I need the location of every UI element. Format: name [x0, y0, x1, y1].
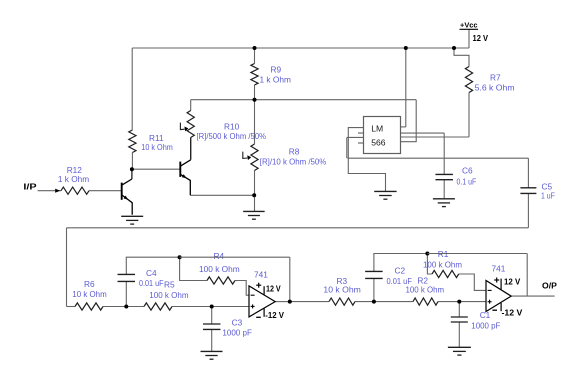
wire rail to U1 pin8 [405, 48, 407, 127]
svg-text:C4: C4 [146, 268, 157, 278]
wire feedback vertical U3 [526, 254, 528, 297]
wire node to C1 [458, 302, 460, 317]
svg-text:12 V: 12 V [473, 34, 489, 43]
Vcc supply symbol [460, 21, 489, 43]
wire top supply rail [132, 47, 469, 49]
svg-text:I/P: I/P [23, 182, 37, 192]
junction node B [178, 255, 182, 259]
wire Q2 collector net horizontal [191, 99, 417, 101]
wire rail jog to R7 [454, 48, 469, 67]
wire to R3 [290, 301, 329, 303]
resistor R12 [61, 187, 89, 194]
svg-text:0.01 uF: 0.01 uF [139, 278, 164, 288]
wire coupling net horizontal [67, 227, 529, 229]
wire Q1 collector to Q2 base [132, 168, 180, 170]
wire R12 to Q1 base [89, 190, 122, 192]
wire rail to R11 [131, 48, 133, 130]
resistor R2 [413, 298, 438, 305]
transistor Q1 [121, 183, 123, 200]
svg-text:LM: LM [371, 124, 383, 134]
wire U1 pin8 stub [401, 126, 406, 128]
resistor R3 [329, 298, 355, 305]
wire U1 pin1 to ground [348, 128, 385, 192]
ground Q1 emitter [121, 215, 143, 217]
wire R6 to node A [103, 306, 126, 308]
resistor R1 [432, 270, 459, 277]
junction R9/R8 [253, 98, 257, 102]
transistor Q2 [179, 162, 181, 177]
wire to R10 top [190, 100, 192, 111]
ground C1 [448, 346, 471, 348]
svg-text:10 k Ohm: 10 k Ohm [72, 289, 106, 299]
junction Q1 collector [130, 167, 134, 171]
svg-text:R4: R4 [214, 251, 225, 261]
wire C4 bottom [125, 281, 127, 306]
svg-text:C6: C6 [462, 166, 473, 176]
potentiometer R10 [187, 111, 194, 138]
resistor R6 [75, 303, 103, 310]
svg-text:5.6 k Ohm: 5.6 k Ohm [475, 83, 515, 93]
wire to C5 top [527, 158, 529, 188]
wire U1 pin4 down [346, 137, 348, 158]
svg-text:R5: R5 [164, 280, 175, 290]
wire op-amp U2 output [275, 301, 290, 303]
svg-text:-12 V: -12 V [265, 311, 284, 320]
wire node A2 to R2 [374, 301, 413, 303]
wire C4 top to node B [126, 257, 179, 274]
svg-text:12 V: 12 V [504, 278, 521, 287]
wire I/P to R12 [38, 190, 61, 192]
svg-text:1000 pF: 1000 pF [222, 328, 252, 338]
wire Vcc drop [468, 29, 470, 48]
wire U1 pin4 stub [347, 136, 364, 138]
svg-text:100 k Ohm: 100 k Ohm [199, 264, 240, 274]
wire R8 to emitter node [254, 171, 256, 196]
wire feedback U2 over R4 label [180, 256, 290, 258]
ground C3 [201, 350, 223, 352]
wire Q2 emitter to ground node [190, 194, 254, 196]
junction node B2 [425, 252, 429, 256]
svg-text:C1: C1 [480, 310, 491, 320]
svg-text:+Vcc: +Vcc [460, 21, 478, 30]
svg-text:R10: R10 [224, 122, 240, 132]
svg-text:[R]/500 k Ohm /50%: [R]/500 k Ohm /50% [197, 131, 267, 141]
wire output net horizontal [348, 157, 529, 159]
input arrow [55, 189, 60, 193]
svg-text:R7: R7 [490, 73, 501, 83]
svg-text:10 k Ohm: 10 k Ohm [141, 142, 173, 152]
svg-text:0.1 uF: 0.1 uF [457, 177, 477, 187]
resistor R5 [144, 303, 172, 310]
wire C3 to ground [211, 329, 213, 351]
capacitor C1 [451, 316, 468, 318]
capacitor C6 [435, 173, 453, 175]
junction rail/U1 [404, 46, 408, 50]
wire down to R6 [66, 228, 68, 307]
wire R2 to op-amp + [438, 301, 486, 303]
capacitor C5 [520, 187, 536, 189]
wire net to U1 pin3 [401, 100, 417, 142]
svg-text:[R]/10 k Ohm /50%: [R]/10 k Ohm /50% [260, 157, 327, 167]
potentiometer R10 arrow [180, 123, 184, 130]
svg-text:10 k Ohm: 10 k Ohm [323, 285, 361, 295]
wire C2 top to node B2 [374, 254, 428, 272]
svg-text:1 k Ohm: 1 k Ohm [58, 174, 89, 184]
wire to R6 [67, 306, 76, 308]
wire R3 to node A2 [355, 301, 374, 303]
svg-text:1 uF: 1 uF [541, 191, 555, 201]
junction C3 node [210, 305, 214, 309]
svg-text:100 k Ohm: 100 k Ohm [423, 260, 462, 270]
svg-text:1000 pF: 1000 pF [471, 321, 500, 331]
capacitor C4 [118, 273, 136, 275]
wire Q1 collector vertical [131, 169, 133, 179]
potentiometer R8 arrow [243, 152, 248, 159]
wire R4 to op-amp - [235, 281, 249, 296]
wire R5 to op-amp + [172, 306, 249, 308]
ground Q2 emitter [243, 210, 265, 212]
wire R11 to collector node [131, 153, 133, 170]
wire C1 to ground [458, 322, 460, 347]
svg-text:-12 V: -12 V [502, 309, 523, 318]
junction U2 output [288, 300, 292, 304]
resistor R4 [207, 277, 235, 284]
svg-text:1 k Ohm: 1 k Ohm [260, 75, 291, 85]
svg-text:100 k Ohm: 100 k Ohm [406, 285, 445, 295]
wire C5 bottom down [527, 193, 529, 227]
junction rail/Vcc [452, 46, 456, 50]
junction node A2 [372, 300, 376, 304]
wire feedback vertical U2 [289, 257, 291, 301]
junction C1 node [457, 300, 461, 304]
wire node B to R4 [180, 257, 207, 280]
capacitor C3 [203, 323, 221, 325]
wire C6 to ground [443, 180, 445, 199]
wire U1 pin5 to C6 [401, 132, 445, 134]
wire node to R8 top [254, 100, 256, 144]
ground C6 [433, 198, 455, 200]
op-amp U2 741 [249, 283, 275, 318]
capacitor C2 [365, 270, 383, 272]
wire R7 bottom [468, 93, 470, 138]
wire node B2 to R1 [427, 254, 432, 275]
wire rail to R9 [254, 48, 256, 64]
wire R7 to U1 pin6 [401, 136, 470, 138]
wire R1 to op-amp - [459, 274, 486, 290]
svg-text:R9: R9 [271, 65, 282, 75]
svg-text:C3: C3 [232, 318, 243, 328]
wire R9 to node [254, 85, 256, 100]
svg-text:O/P: O/P [542, 281, 557, 291]
wire O/P output [511, 295, 554, 297]
svg-text:12 V: 12 V [266, 285, 281, 294]
wire R10 to Q2 collector [190, 138, 192, 160]
wire node to C3 [211, 307, 213, 325]
svg-text:100 k Ohm: 100 k Ohm [149, 290, 188, 300]
junction emitter/ground [252, 193, 256, 197]
resistor R9 [251, 64, 258, 86]
wire node A to R5 [126, 306, 144, 308]
junction rail/R9 [253, 46, 257, 50]
svg-text:566: 566 [371, 138, 386, 148]
svg-text:R6: R6 [84, 279, 95, 289]
wire feedback U3 over R1 label [427, 253, 527, 255]
svg-text:R8: R8 [289, 147, 300, 157]
svg-text:741: 741 [254, 270, 268, 280]
wire node to ground [254, 195, 256, 211]
resistor R7 [465, 67, 472, 93]
ground U1 [374, 190, 396, 192]
resistor R11 [129, 130, 136, 153]
wire down to C6 [443, 133, 445, 174]
junction node A [124, 305, 128, 309]
wire Q2 collector vertical [190, 138, 192, 160]
svg-text:741: 741 [492, 264, 506, 274]
wire C2 bottom [373, 278, 375, 301]
svg-text:C2: C2 [395, 266, 406, 276]
potentiometer R8 [251, 144, 258, 171]
op-amp U3 741 [486, 278, 511, 312]
IC U1 LM566 [358, 117, 401, 154]
